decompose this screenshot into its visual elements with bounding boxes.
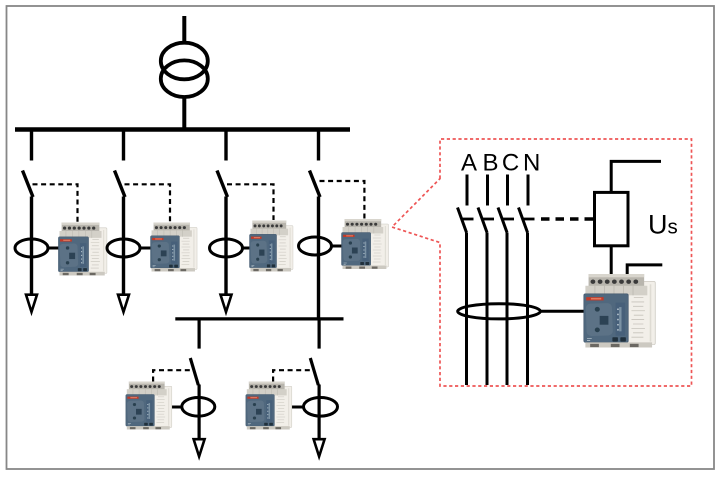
wire: dashed trip link CB2 to relay 2 [125, 184, 171, 222]
load arrow feeder 3 [221, 295, 232, 312]
wire: feeder 3 vertical [224, 197, 227, 295]
trip coil box Us [595, 192, 629, 245]
wire: relay 5 to CT5 [171, 406, 182, 409]
breaker pole C blade [498, 208, 507, 233]
breaker CB1 blade [23, 171, 34, 198]
load arrow sub-feeder 2 [314, 439, 325, 456]
wire: dashed trip link CB6 to relay 6 [273, 370, 311, 381]
wire: phase A upper [466, 175, 469, 206]
relay device 6 [246, 382, 292, 430]
breaker pole N blade [519, 208, 528, 233]
breaker CB3 blade [217, 171, 228, 198]
wire: feeder 4 drop from bus [317, 130, 320, 161]
CT coil 6 [304, 398, 338, 417]
wire: sub-feeder 1 vertical [198, 385, 201, 440]
breaker pole B linkage tick [482, 218, 494, 221]
wire: phase A lower [465, 233, 468, 386]
load arrow feeder 1 [26, 295, 37, 312]
breaker pole C linkage tick [502, 218, 514, 221]
wire: Us box bottom to relay [610, 246, 613, 276]
wire: dashed trip link CB1 to relay 1 [33, 184, 78, 222]
wire: feeder 2 drop from bus [122, 130, 125, 161]
wire: phase N lower [526, 233, 529, 386]
wire: feeder 3 drop from bus [224, 130, 227, 161]
wire: relay aux supply [627, 265, 662, 276]
wire: feeder 1 drop from bus [30, 130, 33, 161]
svg-text:C: C [502, 150, 519, 177]
breaker CB4 blade [310, 171, 321, 198]
CT coil 1 [15, 239, 48, 257]
wire: phase B lower [486, 233, 489, 386]
relay device (detail) [584, 274, 655, 348]
wire: CT2 to relay 2 [140, 247, 151, 250]
wire: CT3 to relay 3 [243, 247, 251, 250]
CT coil 4 [299, 237, 332, 255]
breaker CB6 blade [310, 358, 318, 385]
main bus bar [15, 127, 350, 132]
wire: sub-feeder 2 vertical [318, 385, 321, 440]
wire: sub-feeder 1 drop from sub bus [198, 319, 201, 349]
wire: CT4 to relay 4 [332, 245, 343, 248]
relay device 3 [250, 221, 293, 272]
wire: dashed trip link CB5 to relay 5 [153, 370, 191, 381]
wire: phase B upper [486, 175, 489, 206]
relay device 1 [58, 223, 107, 276]
wire: dashed trip link CB3 to relay 3 [227, 184, 274, 220]
breaker CB2 blade [115, 171, 126, 198]
CT coil (detail, around A B C N) [458, 304, 541, 319]
breaker pole A blade [458, 208, 467, 233]
wire: detail CT to relay [540, 310, 585, 313]
relay device 5 [126, 382, 172, 430]
transformer T1 (two-winding) [161, 43, 208, 97]
svg-text:A: A [461, 150, 477, 177]
relay device 2 [151, 223, 198, 272]
CT coil 5 [182, 398, 215, 417]
wire: relay 6 to CT6 [291, 406, 304, 409]
load arrow feeder 2 [118, 295, 129, 312]
wire: feeder 4 vertical to sub bus [317, 197, 320, 319]
sub bus bar [175, 317, 343, 320]
load arrow sub-feeder 1 [194, 439, 205, 456]
wire: dashed linkage to Us coil [541, 217, 595, 221]
breaker pole B blade [478, 208, 487, 233]
wire: feeder 2 vertical [122, 197, 125, 295]
breaker CB5 blade [190, 358, 198, 385]
wire: incoming feed to transformer [182, 16, 186, 44]
detail callout balloon (red dashed) [392, 139, 692, 386]
wire: dashed trip link CB4 to relay 4 [320, 181, 365, 219]
CT coil 3 [210, 239, 243, 257]
wire: transformer to main bus [182, 96, 186, 129]
CT coil 2 [107, 239, 140, 257]
wire: phase N upper [527, 175, 530, 206]
wire: Us box top to supply [611, 161, 661, 192]
wire: feeder 1 vertical [30, 197, 33, 295]
svg-text:N: N [523, 150, 540, 177]
breaker pole N linkage tick [523, 218, 535, 221]
relay device 4 [342, 219, 389, 269]
wire: phase C lower [506, 233, 509, 386]
wire: sub-feeder 2 drop from sub bus [318, 319, 321, 349]
breaker pole A linkage tick [462, 218, 474, 221]
wire: CT1 to relay 1 [48, 247, 59, 250]
wire: phase C upper [506, 175, 509, 206]
svg-text:B: B [482, 150, 498, 177]
